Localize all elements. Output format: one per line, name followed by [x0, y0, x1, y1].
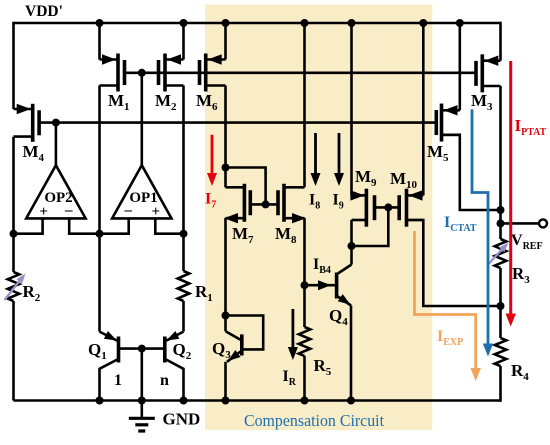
wire Q3 emitter to ground rail [224, 362, 227, 401]
wire R5 node down [303, 285, 306, 327]
current arrow I9 [338, 133, 341, 179]
current arrow I8 [314, 133, 317, 179]
wire M10 drain to R3/R4 node [407, 220, 501, 306]
transistor M10 [407, 194, 424, 197]
transistor Q4 (NPN) [338, 265, 352, 274]
svg-text:n: n [160, 372, 169, 389]
wire OP1 - input lead to M1 drain line [100, 218, 129, 233]
transistor M5 [442, 109, 460, 112]
current path IEXP [415, 231, 476, 373]
node R3/R4/M10 junction [497, 302, 505, 310]
resistor R2 (trimmable) [8, 272, 20, 301]
terminal VREF open circle [539, 219, 547, 227]
node M1 drain to op-amp inputs [96, 230, 104, 238]
op-amp OP1 [112, 165, 171, 218]
wire OP2 + input lead [14, 218, 43, 233]
wire bases to ground rail [141, 349, 144, 401]
wire M8 source down to R5/Q4 base node [303, 218, 306, 285]
wire R1 bottom to Q2 emitter [182, 301, 185, 332]
wire OP2 output up to gate row2 [55, 123, 58, 167]
svg-text:GND: GND [163, 410, 201, 429]
node M8 source / R5 / Q4 base [301, 281, 309, 289]
transistor M7 [226, 186, 245, 189]
wire M7 drain stub [224, 168, 227, 188]
transistor M8 [284, 186, 305, 189]
wire M2 drain down to R1 [182, 86, 185, 272]
wire M6/M7 drain to mirror gate (diode connection) [226, 168, 266, 205]
wire M4 drain down left side [12, 137, 15, 272]
wire OP2 - input lead to M1 drain line [69, 218, 99, 233]
wire M4 gate row to M5 gate [39, 121, 436, 124]
wire M5 drain to PTAT summing node [442, 135, 501, 210]
transistor M9 [352, 194, 367, 197]
transistor Q1 (PNP) [100, 332, 118, 341]
node OP2+ on left line [10, 230, 18, 238]
current arrow IR [291, 309, 294, 352]
node M2 drain to OP1+ input [180, 230, 188, 238]
node rail junctions [96, 397, 104, 405]
wire M5 source drop [456, 19, 464, 27]
wire M7 source down to Q3 [224, 218, 227, 315]
current path ICTAT [472, 109, 488, 349]
resistor R1 [178, 271, 190, 301]
wire M6 source drop [222, 19, 230, 27]
transistor M3 [499, 22, 502, 61]
wire M10 source drop [419, 19, 427, 27]
transistor M4 [14, 108, 33, 111]
node M9/M10 gate junction [384, 203, 392, 211]
svg-text:Compensation Circuit: Compensation Circuit [244, 411, 384, 430]
wire Q4 emitter to ground rail [350, 306, 353, 401]
svg-text:1: 1 [114, 372, 122, 389]
resistor R3 (trimmable) [495, 239, 507, 268]
wire M1 drain down to Q1 emitter [98, 86, 101, 332]
node M7/M8 gate junction [262, 200, 270, 208]
wire PMOS common gate row [125, 72, 477, 75]
transistor Q2 (PNP) [166, 332, 183, 341]
wire M9 drain down [350, 220, 353, 265]
wire VDD top rail [14, 22, 501, 25]
wire M7-M8 gate link [250, 203, 278, 206]
svg-text:–: – [124, 203, 133, 219]
compensation circuit highlight box [205, 5, 432, 431]
wire M1 source drop [96, 19, 104, 27]
wire gate junction down to M9 drain (diode connection) [352, 207, 389, 246]
svg-text:+: + [39, 204, 48, 220]
node Q1/Q2 base tie [138, 345, 146, 353]
wire M9 source drop [348, 19, 356, 27]
node M6 drain / M7 drain / mirror gates [222, 164, 230, 172]
transistor M2 [165, 58, 184, 61]
wire R5 bottom to rail [303, 356, 306, 401]
current arrow I7 [211, 135, 214, 178]
wire M2 source drop [180, 19, 188, 27]
transistor M6 [206, 58, 226, 61]
wire M8 drain drop from rail [301, 19, 309, 27]
svg-text:+: + [152, 204, 161, 220]
transistor Q3 (diode-connected) [224, 316, 227, 332]
current path IPTAT [509, 61, 512, 319]
wire VREF output [501, 222, 540, 225]
wire R3 to R4 [499, 268, 502, 338]
resistor R5 [299, 327, 311, 356]
svg-text:VDD': VDD' [25, 3, 63, 20]
wire OP1 output to gate row [141, 73, 144, 165]
node M9 drain / Q4 collector [348, 242, 356, 250]
op-amp OP2 [26, 165, 85, 218]
node Q3 collector junction [222, 312, 230, 320]
wire OP1 + input lead to M2 drain line [155, 218, 183, 233]
node OP1 output on gate row [138, 69, 146, 77]
wire Q4 base lead with IB4 arrow [305, 284, 337, 287]
wire M3 drain down right side [499, 86, 502, 239]
wire M6 drain down [224, 86, 227, 168]
wire R2 bottom to ground rail [12, 301, 15, 401]
svg-text:–: – [64, 203, 73, 219]
node M5 drain junction [497, 206, 505, 214]
wire ground rail [14, 399, 501, 402]
node VREF junction [497, 219, 505, 227]
node OP2 output junction [52, 119, 60, 127]
wire R4 bottom to ground rail [499, 366, 502, 402]
transistor M1 [100, 58, 119, 61]
wire left VDD drop to M4 source [12, 22, 15, 109]
ground symbol [141, 401, 144, 418]
resistor R4 [495, 338, 507, 366]
wire M9-M10 gate link [375, 206, 400, 209]
